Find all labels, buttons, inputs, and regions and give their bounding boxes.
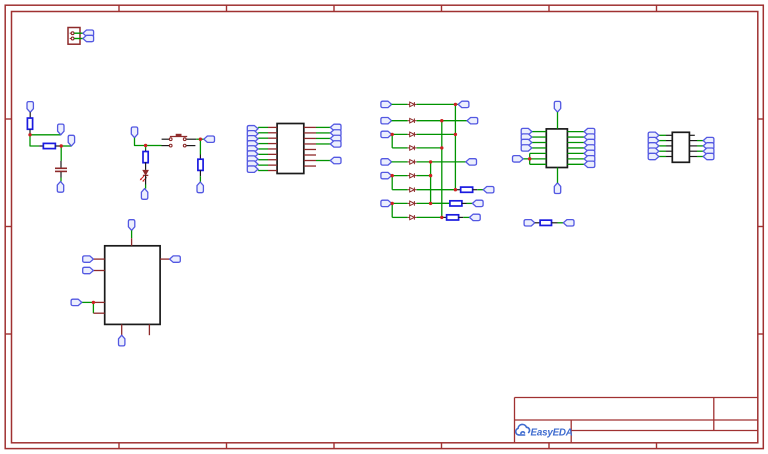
- net flag: [381, 101, 392, 107]
- pin 6: [160, 258, 170, 260]
- diode D8: [408, 202, 410, 204]
- wire: [530, 158, 547, 160]
- wire: [697, 145, 703, 147]
- net flag: [467, 118, 478, 124]
- wire: [417, 175, 431, 177]
- pin 6: [689, 134, 694, 136]
- wire: [29, 112, 31, 118]
- wire: [523, 158, 530, 160]
- pin 8: [689, 145, 697, 147]
- wire: [145, 175, 147, 184]
- wire: [258, 148, 268, 150]
- diode D5: [408, 161, 410, 163]
- pushbutton SW1: [162, 134, 197, 147]
- net flag: [257, 158, 259, 161]
- wire: [392, 216, 407, 218]
- wire: [430, 162, 432, 204]
- wire: [530, 152, 547, 154]
- resistor R6: [450, 201, 462, 206]
- pin 1: [666, 134, 672, 136]
- wire: [145, 149, 147, 152]
- junction: [528, 157, 531, 160]
- net flag: [648, 153, 659, 159]
- net flag: [257, 148, 259, 150]
- junction: [454, 188, 457, 191]
- resistor R4: [143, 152, 148, 163]
- net flag: [257, 153, 259, 155]
- resistor R8: [540, 220, 551, 225]
- net flag: [381, 118, 392, 124]
- diode D1: [408, 103, 410, 105]
- junction: [440, 119, 443, 122]
- pin 13: [304, 143, 316, 145]
- pin 4: [666, 150, 672, 152]
- pin 11: [304, 132, 316, 134]
- svg-text:EasyEDA: EasyEDA: [531, 428, 573, 439]
- net flag: [257, 127, 259, 128]
- net flag: [170, 256, 181, 262]
- wire: [532, 147, 546, 149]
- wire: [567, 136, 584, 138]
- wire: [529, 153, 531, 164]
- net flag: [521, 128, 532, 134]
- diode D2: [408, 120, 410, 122]
- wire: [431, 202, 451, 204]
- resistor R2: [43, 143, 55, 148]
- resistor R5: [461, 187, 473, 192]
- wire: [392, 103, 408, 105]
- net flag: [703, 148, 714, 154]
- wire: [532, 136, 546, 138]
- net flag: [257, 164, 259, 165]
- pin 16: [304, 160, 316, 162]
- wire: [145, 146, 147, 150]
- wire: [135, 138, 146, 146]
- wire: [392, 175, 408, 177]
- net flag: [330, 130, 341, 136]
- pin 17: [304, 165, 316, 167]
- wire: [30, 135, 39, 146]
- net flag: [584, 156, 595, 162]
- pin 4: [93, 301, 104, 303]
- op-amp U1: [277, 124, 304, 174]
- wire: [659, 134, 666, 136]
- wire: [391, 134, 393, 148]
- wire: [567, 147, 584, 149]
- wire: [567, 152, 584, 154]
- net flag: [257, 137, 259, 140]
- net flag: [131, 127, 137, 138]
- net flag: [119, 335, 125, 346]
- net flag: [584, 150, 595, 156]
- junction: [391, 174, 394, 177]
- wire: [552, 222, 558, 224]
- wire: [145, 162, 147, 170]
- wire: [467, 202, 473, 204]
- net flag: [703, 137, 714, 143]
- net flag: [128, 220, 134, 231]
- pin 5: [268, 148, 277, 150]
- net flag: [83, 35, 94, 41]
- wire: [258, 132, 268, 134]
- pin 9: [689, 150, 697, 152]
- net flag: [83, 30, 94, 36]
- net flag: [483, 187, 494, 193]
- junction: [60, 144, 63, 147]
- wire: [417, 202, 451, 204]
- wire: [131, 230, 133, 238]
- wire: [199, 155, 201, 160]
- wire: [530, 163, 547, 165]
- wire: [659, 140, 666, 142]
- junction: [429, 160, 432, 163]
- wire: [697, 140, 703, 142]
- wire: [659, 145, 666, 147]
- diode D4: [408, 147, 410, 149]
- net flag: [330, 157, 341, 163]
- wire: [391, 176, 393, 190]
- wire: [92, 302, 94, 313]
- wire: [316, 126, 330, 128]
- wire: [558, 222, 564, 224]
- resistor R3: [198, 159, 203, 170]
- net flag: [330, 135, 341, 141]
- net flag: [83, 256, 94, 262]
- net flag: [381, 172, 392, 178]
- wire: [392, 202, 408, 204]
- pin 2: [268, 132, 277, 134]
- net flag: [27, 102, 33, 113]
- pin 5: [666, 156, 672, 158]
- capacitor C1: [55, 167, 67, 169]
- net flag: [521, 139, 532, 145]
- pin 2: [93, 258, 104, 260]
- diode D9: [408, 216, 410, 218]
- wire: [472, 189, 477, 191]
- wire: [532, 131, 546, 133]
- net flag: [584, 139, 595, 145]
- net flag: [521, 145, 532, 151]
- wire: [199, 176, 201, 182]
- wire: [258, 126, 268, 128]
- wire: [458, 216, 463, 218]
- pin 12: [304, 137, 316, 139]
- junction: [391, 202, 394, 205]
- pin 10: [689, 156, 697, 158]
- junction: [199, 138, 202, 141]
- wire: [659, 156, 666, 158]
- wire: [417, 161, 466, 163]
- wire: [82, 301, 94, 303]
- wire: [316, 132, 330, 134]
- wire: [196, 138, 200, 140]
- wire: [392, 189, 407, 191]
- wire: [55, 145, 61, 147]
- pin 5: [93, 312, 104, 314]
- wire: [417, 147, 442, 149]
- wire: [60, 178, 62, 182]
- net flag: [648, 132, 659, 138]
- pin 6: [268, 153, 277, 155]
- net flag: [71, 299, 82, 305]
- wire: [417, 103, 459, 105]
- junction: [454, 103, 457, 106]
- pin 9: [268, 170, 277, 172]
- wire: [535, 222, 540, 224]
- wire: [567, 163, 584, 165]
- pin 1: [131, 238, 133, 246]
- pin 7: [689, 140, 697, 142]
- pin 7: [121, 324, 123, 335]
- wire: [258, 170, 268, 172]
- wire: [441, 121, 443, 218]
- wire: [557, 112, 559, 129]
- microcontroller U4: [105, 246, 160, 325]
- wire: [316, 143, 330, 145]
- wire: [60, 146, 62, 161]
- wire: [60, 161, 62, 168]
- pin 15: [304, 154, 316, 156]
- net flag: [257, 169, 259, 170]
- wire: [532, 142, 546, 144]
- wire: [199, 170, 201, 176]
- wire: [455, 189, 461, 191]
- net flag: [703, 153, 714, 159]
- net flag: [584, 145, 595, 151]
- wire: [567, 131, 584, 133]
- pin 1: [268, 126, 277, 128]
- wire: [462, 202, 467, 204]
- net flag: [703, 143, 714, 149]
- net flag: [521, 134, 532, 140]
- junction: [28, 133, 31, 136]
- wire: [145, 185, 147, 189]
- wire: [392, 133, 408, 135]
- pin 4: [268, 143, 277, 145]
- wire: [61, 145, 71, 147]
- junction: [429, 174, 432, 177]
- net flag: [141, 189, 147, 200]
- net flag: [381, 159, 392, 165]
- pin 7: [268, 159, 277, 161]
- net flag: [648, 148, 659, 154]
- net flag: [197, 182, 203, 193]
- junction: [454, 133, 457, 136]
- wire: [417, 120, 467, 122]
- wire: [697, 156, 703, 158]
- net flag: [524, 220, 535, 226]
- net flag: [584, 134, 595, 140]
- wire: [30, 134, 61, 136]
- net flag: [648, 143, 659, 149]
- pin 2: [666, 140, 672, 142]
- wire: [316, 160, 330, 162]
- net flag: [458, 101, 469, 107]
- wire: [200, 138, 203, 140]
- wire: [463, 216, 469, 218]
- resistor R1: [27, 118, 32, 129]
- LED LED1: [140, 170, 149, 182]
- wire: [567, 142, 584, 144]
- net flag: [68, 135, 74, 146]
- wire: [316, 137, 330, 139]
- net flag: [83, 267, 94, 273]
- pin 10: [304, 126, 316, 128]
- net flag: [648, 137, 659, 143]
- net flag: [330, 141, 341, 147]
- wire: [392, 120, 408, 122]
- junction: [440, 216, 443, 219]
- net flag: [513, 156, 524, 162]
- wire: [29, 129, 31, 135]
- net flag: [257, 133, 259, 134]
- net flag: [470, 214, 481, 220]
- wire: [417, 216, 442, 218]
- net flag: [57, 182, 63, 193]
- junction: [391, 133, 394, 136]
- connector J1: [68, 28, 80, 45]
- op-amp U3: [672, 132, 689, 162]
- wire: [659, 150, 666, 152]
- wire: [74, 38, 83, 40]
- pin 14: [304, 148, 316, 150]
- diode D3: [408, 133, 410, 135]
- wire: [477, 189, 483, 191]
- pin 3: [666, 145, 672, 147]
- wire: [417, 189, 456, 191]
- wire: [557, 168, 559, 183]
- pin 3: [268, 137, 277, 139]
- net flag: [554, 101, 560, 112]
- wire: [391, 203, 393, 217]
- junction: [429, 202, 432, 205]
- net flag: [257, 143, 259, 145]
- junction: [92, 301, 95, 304]
- wire: [442, 216, 447, 218]
- net flag: [58, 124, 64, 135]
- wire: [454, 104, 456, 189]
- net flag: [472, 200, 483, 206]
- wire: [74, 32, 83, 34]
- wire: [199, 139, 201, 154]
- net flag: [381, 131, 392, 137]
- net flag: [381, 200, 392, 206]
- net flag: [466, 159, 477, 165]
- op-amp U2: [546, 129, 567, 168]
- wire: [258, 153, 268, 155]
- net flag: [554, 183, 560, 194]
- net flag: [563, 220, 574, 226]
- diode D7: [408, 189, 410, 191]
- pin 8: [268, 164, 277, 166]
- pin 8: [148, 324, 150, 335]
- wire: [60, 172, 62, 178]
- wire: [258, 137, 268, 139]
- pin 3: [93, 270, 104, 272]
- wire: [146, 145, 162, 147]
- wire: [567, 158, 584, 160]
- junction: [144, 144, 147, 147]
- wire: [697, 150, 703, 152]
- diode D6: [408, 175, 410, 177]
- wire: [258, 143, 268, 145]
- wire: [258, 159, 268, 161]
- wire: [39, 145, 43, 147]
- wire: [392, 161, 408, 163]
- net flag: [330, 124, 341, 130]
- wire: [392, 147, 407, 149]
- net flag: [584, 161, 595, 167]
- net flag: [584, 128, 595, 134]
- junction: [440, 146, 443, 149]
- wire: [258, 164, 268, 166]
- resistor R7: [447, 215, 459, 220]
- wire: [417, 133, 456, 135]
- net flag: [204, 136, 215, 142]
